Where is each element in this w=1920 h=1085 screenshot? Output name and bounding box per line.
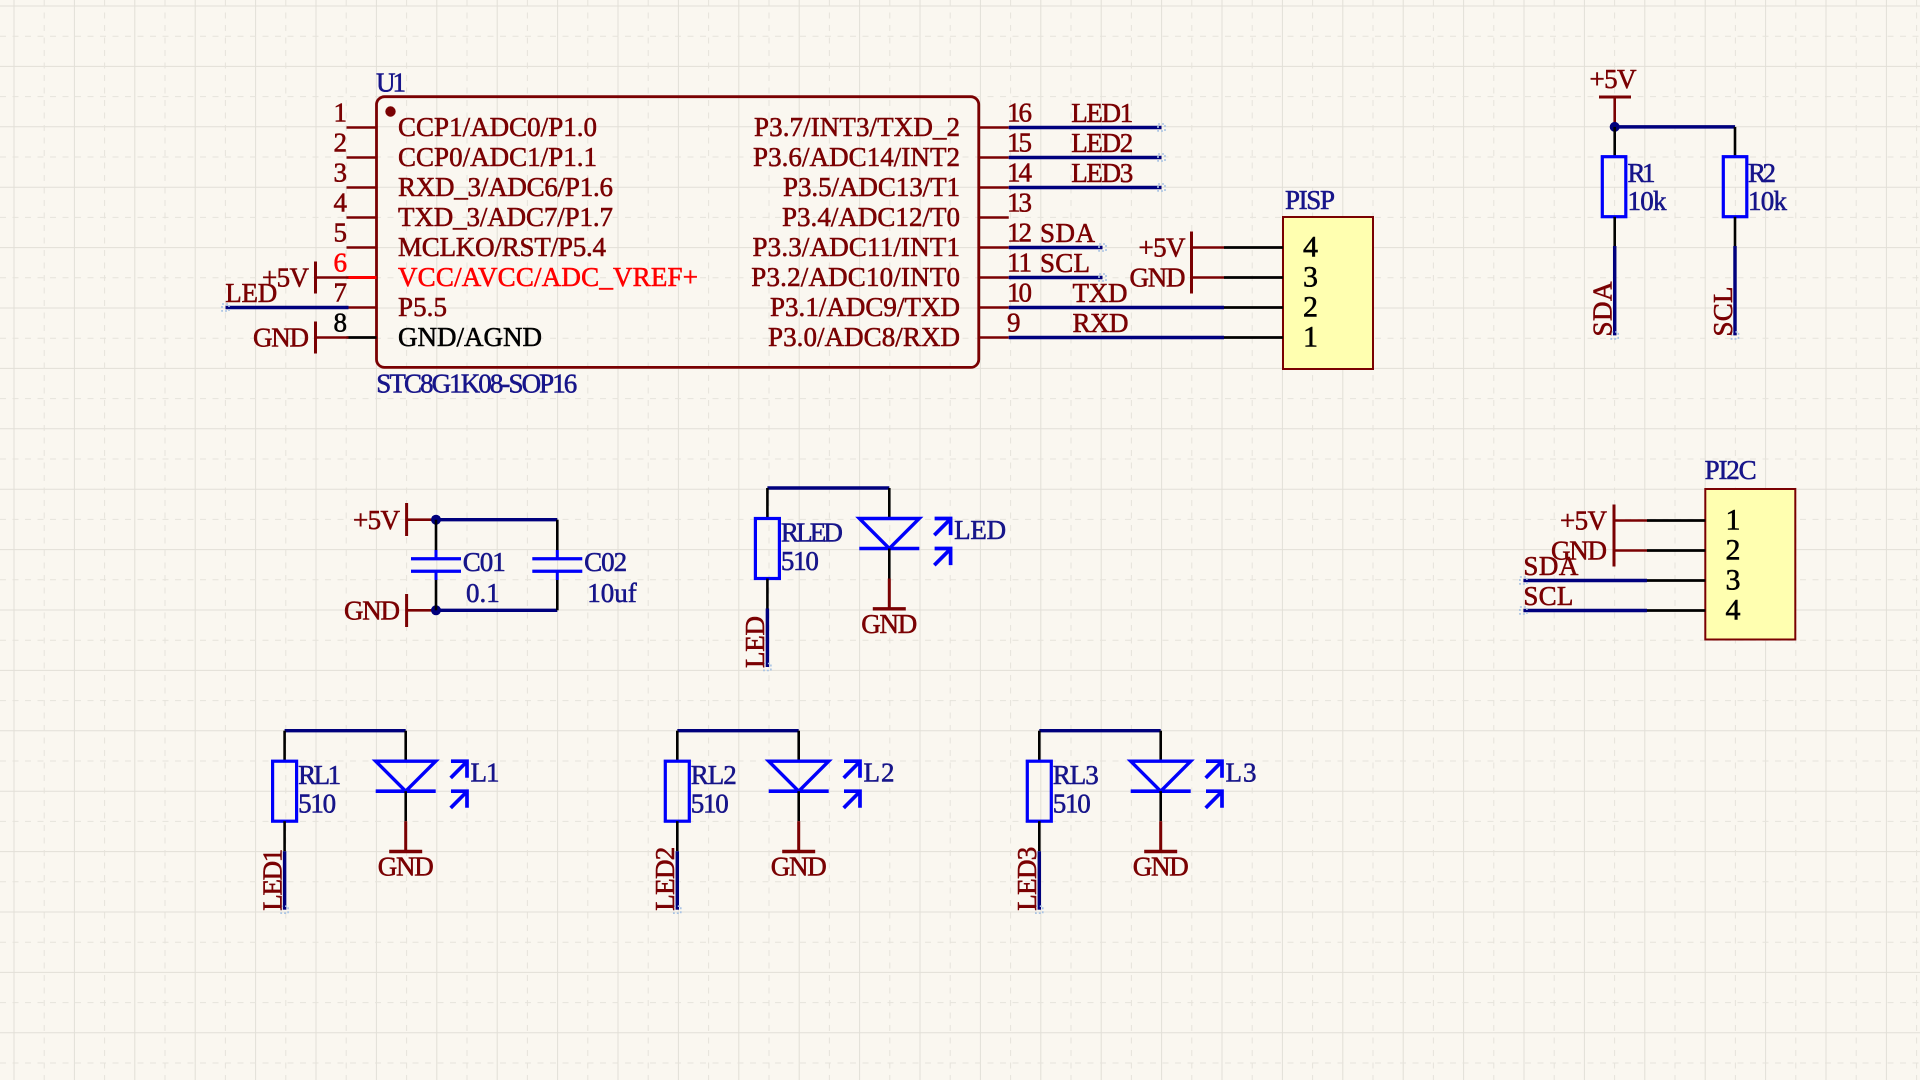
svg-text:VCC/AVCC/ADC_VREF+: VCC/AVCC/ADC_VREF+ bbox=[398, 262, 698, 292]
svg-text:+5V: +5V bbox=[1590, 64, 1638, 94]
svg-text:10: 10 bbox=[1007, 278, 1032, 308]
svg-text:3: 3 bbox=[1726, 564, 1741, 597]
svg-text:P3.4/ADC12/T0: P3.4/ADC12/T0 bbox=[782, 202, 960, 232]
svg-text:P3.3/ADC11/INT1: P3.3/ADC11/INT1 bbox=[753, 232, 961, 262]
resistor RL3 510 bbox=[1027, 731, 1099, 852]
LED LED bbox=[859, 488, 1006, 565]
svg-text:1: 1 bbox=[334, 98, 348, 128]
connector PISP bbox=[1224, 185, 1373, 369]
svg-text:R1: R1 bbox=[1628, 158, 1656, 188]
wire +5V rail to R2 bbox=[1615, 125, 1735, 128]
svg-text:P3.6/ADC14/INT2: P3.6/ADC14/INT2 bbox=[753, 142, 960, 172]
wire +5V to PISP pin 4 bbox=[1192, 246, 1225, 249]
svg-text:1: 1 bbox=[1726, 504, 1741, 537]
svg-text:2: 2 bbox=[334, 128, 348, 158]
ground port GND at C01 bbox=[344, 594, 407, 627]
PI2C pin 4 stub bbox=[1647, 609, 1705, 612]
U1 pin 13 stub bbox=[979, 216, 1009, 218]
svg-text:4: 4 bbox=[1303, 231, 1318, 264]
svg-text:LED3: LED3 bbox=[1012, 847, 1042, 911]
svg-text:P3.1/ADC9/TXD: P3.1/ADC9/TXD bbox=[770, 292, 960, 322]
svg-text:0.1: 0.1 bbox=[466, 578, 500, 608]
wire GND to PISP pin 3 bbox=[1192, 276, 1225, 279]
U1 pin 4 stub bbox=[347, 216, 377, 218]
U1 pin 14 stub bbox=[979, 186, 1009, 188]
svg-text:GND: GND bbox=[344, 596, 400, 626]
capacitor C02 10uf bbox=[532, 520, 637, 611]
ground port GND at PISP pin 3 bbox=[1130, 262, 1192, 294]
LED L1 bbox=[376, 731, 500, 808]
resistor RL1 510 bbox=[273, 731, 342, 852]
svg-text:GND: GND bbox=[253, 323, 309, 353]
svg-text:4: 4 bbox=[334, 188, 348, 218]
svg-text:C01: C01 bbox=[463, 547, 506, 577]
svg-text:LED1: LED1 bbox=[1071, 98, 1133, 128]
wire net SCL below R2 bbox=[1733, 246, 1736, 335]
U1 pin 6 stub bbox=[347, 276, 377, 278]
PISP pin 3 stub bbox=[1224, 276, 1283, 279]
svg-text:16: 16 bbox=[1007, 98, 1032, 128]
wire net LED1 below resistor bbox=[283, 851, 286, 910]
svg-text:L2: L2 bbox=[864, 758, 895, 788]
svg-text:GND: GND bbox=[378, 852, 434, 882]
svg-text:510: 510 bbox=[691, 789, 729, 819]
svg-text:P3.2/ADC10/INT0: P3.2/ADC10/INT0 bbox=[751, 262, 960, 292]
svg-text:CCP0/ADC1/P1.1: CCP0/ADC1/P1.1 bbox=[398, 142, 597, 172]
svg-text:LED2: LED2 bbox=[650, 847, 680, 911]
svg-text:11: 11 bbox=[1007, 248, 1032, 278]
svg-text:RXD: RXD bbox=[1073, 308, 1129, 338]
wire top rail LED cell bbox=[767, 486, 889, 489]
svg-text:PISP: PISP bbox=[1285, 185, 1335, 215]
svg-text:5: 5 bbox=[334, 218, 348, 248]
svg-text:RL3: RL3 bbox=[1053, 760, 1099, 790]
power port +5V at C01 bbox=[353, 503, 407, 536]
svg-text:TXD: TXD bbox=[1073, 278, 1128, 308]
U1 pin 11 stub bbox=[979, 276, 1009, 278]
svg-text:10uf: 10uf bbox=[587, 578, 637, 608]
svg-text:+5V: +5V bbox=[353, 505, 401, 535]
power port +5V at U1 pin 6 bbox=[262, 262, 316, 294]
wire bottom rail C01-C02 bbox=[436, 609, 557, 612]
U1 pin 3 stub bbox=[347, 186, 377, 188]
wire net LED below resistor bbox=[766, 609, 769, 668]
svg-text:3: 3 bbox=[1303, 261, 1318, 294]
U1 pin 12 stub bbox=[979, 246, 1009, 248]
junction node top bbox=[431, 515, 441, 525]
ground symbol GND under L2 bbox=[771, 821, 827, 882]
wire net SDA to PI2C pin 3 bbox=[1523, 579, 1647, 582]
U1 pin 1 stub bbox=[347, 126, 377, 128]
svg-text:GND/AGND: GND/AGND bbox=[398, 322, 542, 352]
svg-text:P5.5: P5.5 bbox=[398, 292, 447, 322]
wire net LED3 bbox=[1009, 186, 1162, 189]
ground symbol GND under LED bbox=[861, 579, 917, 640]
U1 pin 10 stub bbox=[979, 306, 1009, 308]
U1 pin 15 stub bbox=[979, 156, 1009, 158]
wire net SDA below R1 bbox=[1613, 246, 1616, 335]
svg-text:RL2: RL2 bbox=[691, 760, 737, 790]
wire segment (red) at pin 6 bbox=[349, 276, 377, 279]
svg-text:PI2C: PI2C bbox=[1705, 455, 1757, 485]
power port +5V at PI2C pin 1 bbox=[1560, 505, 1614, 537]
wire net LED2 below resistor bbox=[676, 851, 679, 910]
U1 pin 9 stub bbox=[979, 336, 1009, 338]
svg-text:C02: C02 bbox=[584, 547, 627, 577]
PI2C pin 3 stub bbox=[1647, 579, 1705, 582]
PISP pin 1 stub bbox=[1224, 336, 1283, 339]
svg-text:1: 1 bbox=[1303, 321, 1318, 354]
wire top rail LED1 cell bbox=[285, 729, 406, 732]
ground port GND at U1 pin 8 bbox=[253, 322, 316, 354]
svg-text:10k: 10k bbox=[1748, 186, 1788, 216]
svg-text:510: 510 bbox=[1053, 789, 1091, 819]
wire net LED2 bbox=[1009, 156, 1162, 159]
U1 pin 8 stub bbox=[347, 336, 377, 338]
svg-text:U1: U1 bbox=[376, 68, 406, 98]
PISP pin 2 stub bbox=[1224, 306, 1283, 309]
ground port GND at PI2C pin 2 bbox=[1551, 535, 1614, 567]
wire LED cathode to GND bbox=[1159, 791, 1162, 821]
svg-text:STC8G1K08-SOP16: STC8G1K08-SOP16 bbox=[376, 369, 577, 399]
svg-text:SDA: SDA bbox=[1040, 218, 1096, 248]
svg-text:LED2: LED2 bbox=[1071, 128, 1133, 158]
IC U1 STC8G1K08-SOP16 bbox=[334, 68, 1033, 399]
svg-text:SDA: SDA bbox=[1523, 551, 1579, 581]
svg-text:GND: GND bbox=[1133, 852, 1189, 882]
wire GND to U1 pin 8 bbox=[316, 336, 349, 339]
svg-text:14: 14 bbox=[1007, 158, 1033, 188]
wire +5V to U1 pin 6 bbox=[316, 276, 349, 279]
svg-text:510: 510 bbox=[781, 546, 819, 576]
resistor RLED 510 bbox=[755, 488, 843, 609]
svg-text:12: 12 bbox=[1007, 218, 1032, 248]
capacitor C01 0.1 bbox=[411, 520, 506, 611]
U1 pin-1 indicator dot bbox=[385, 106, 395, 116]
svg-text:MCLKO/RST/P5.4: MCLKO/RST/P5.4 bbox=[398, 232, 607, 262]
svg-text:+5V: +5V bbox=[1560, 506, 1608, 536]
wire top rail LED3 cell bbox=[1039, 729, 1160, 732]
LED L2 bbox=[769, 731, 895, 808]
svg-text:LED: LED bbox=[954, 515, 1006, 545]
svg-text:SCL: SCL bbox=[1708, 287, 1738, 337]
LED L3 bbox=[1131, 731, 1257, 808]
ground symbol GND under L1 bbox=[378, 821, 434, 882]
svg-text:510: 510 bbox=[298, 789, 336, 819]
svg-text:SCL: SCL bbox=[1523, 581, 1573, 611]
svg-text:3: 3 bbox=[334, 158, 348, 188]
junction node bottom bbox=[431, 605, 441, 615]
junction node at R1 top bbox=[1610, 122, 1620, 132]
wire net LED1 bbox=[1009, 126, 1162, 129]
svg-text:P3.7/INT3/TXD_2: P3.7/INT3/TXD_2 bbox=[754, 112, 960, 142]
svg-text:2: 2 bbox=[1726, 534, 1741, 567]
svg-text:2: 2 bbox=[1303, 291, 1318, 324]
wire top rail LED2 cell bbox=[677, 729, 798, 732]
svg-text:TXD_3/ADC7/P1.7: TXD_3/ADC7/P1.7 bbox=[398, 202, 613, 232]
ground symbol GND under L3 bbox=[1133, 821, 1189, 882]
wire net RXD to PISP pin 1 bbox=[1009, 336, 1224, 339]
svg-text:P3.0/ADC8/RXD: P3.0/ADC8/RXD bbox=[768, 322, 960, 352]
svg-text:RXD_3/ADC6/P1.6: RXD_3/ADC6/P1.6 bbox=[398, 172, 613, 202]
wire net LED3 below resistor bbox=[1038, 851, 1041, 910]
svg-text:SDA: SDA bbox=[1588, 281, 1618, 337]
svg-text:GND: GND bbox=[861, 609, 917, 639]
U1 pin 7 stub bbox=[347, 306, 377, 308]
wire GND to junction bbox=[407, 609, 436, 612]
svg-text:7: 7 bbox=[334, 278, 348, 308]
connector PI2C bbox=[1647, 455, 1795, 639]
svg-text:R2: R2 bbox=[1748, 158, 1776, 188]
wire net LED to U1 pin 7 bbox=[226, 306, 349, 309]
wire LED cathode to GND bbox=[797, 791, 800, 821]
wire net SCL bbox=[1009, 276, 1103, 279]
wire LED cathode to GND bbox=[888, 549, 891, 579]
svg-text:P3.5/ADC13/T1: P3.5/ADC13/T1 bbox=[783, 172, 960, 202]
svg-text:LED: LED bbox=[225, 278, 277, 308]
power port +5V at PISP pin 4 bbox=[1139, 232, 1192, 264]
svg-text:15: 15 bbox=[1007, 128, 1032, 158]
svg-text:10k: 10k bbox=[1628, 186, 1668, 216]
svg-text:+5V: +5V bbox=[1139, 233, 1187, 263]
U1 pin 5 stub bbox=[347, 246, 377, 248]
svg-text:GND: GND bbox=[1130, 263, 1186, 293]
resistor R2 10k bbox=[1723, 127, 1787, 246]
svg-text:L1: L1 bbox=[471, 758, 500, 788]
svg-text:13: 13 bbox=[1007, 188, 1032, 218]
wire net SCL to PI2C pin 4 bbox=[1523, 609, 1647, 612]
svg-text:6: 6 bbox=[334, 248, 348, 278]
wire +5V to PI2C pin 1 bbox=[1614, 519, 1647, 522]
wire GND to PI2C pin 2 bbox=[1614, 549, 1647, 552]
wire LED cathode to GND bbox=[404, 791, 407, 821]
svg-text:GND: GND bbox=[771, 852, 827, 882]
wire segment (black) at pin 8 bbox=[349, 336, 377, 339]
U1 pin 2 stub bbox=[347, 156, 377, 158]
U1 body outline bbox=[377, 97, 979, 368]
power port +5V above R1 bbox=[1590, 64, 1638, 127]
PISP body bbox=[1283, 217, 1373, 369]
U1 pin 16 stub bbox=[979, 126, 1009, 128]
svg-text:LED1: LED1 bbox=[257, 849, 287, 911]
PISP pin 4 stub bbox=[1224, 246, 1283, 249]
svg-text:4: 4 bbox=[1726, 594, 1741, 627]
wire net TXD to PISP pin 2 bbox=[1009, 306, 1224, 309]
wire net SDA bbox=[1009, 246, 1103, 249]
PI2C pin 1 stub bbox=[1647, 519, 1705, 522]
svg-text:RLED: RLED bbox=[781, 518, 843, 548]
svg-text:LED3: LED3 bbox=[1071, 158, 1133, 188]
PI2C body bbox=[1705, 489, 1795, 640]
svg-text:SCL: SCL bbox=[1040, 248, 1090, 278]
svg-text:8: 8 bbox=[334, 308, 348, 338]
svg-text:RL1: RL1 bbox=[298, 760, 341, 790]
PI2C pin 2 stub bbox=[1647, 549, 1705, 552]
svg-text:L3: L3 bbox=[1226, 758, 1257, 788]
wire +5V to junction bbox=[407, 518, 436, 521]
wire top rail C01-C02 bbox=[436, 518, 557, 521]
svg-text:LED: LED bbox=[740, 616, 770, 668]
resistor R1 10k bbox=[1602, 127, 1667, 246]
svg-text:9: 9 bbox=[1007, 308, 1021, 338]
svg-text:CCP1/ADC0/P1.0: CCP1/ADC0/P1.0 bbox=[398, 112, 597, 142]
resistor RL2 510 bbox=[665, 731, 737, 852]
